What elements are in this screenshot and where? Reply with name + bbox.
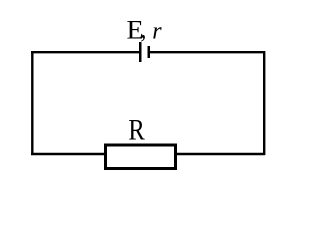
svg-text:R: R (128, 113, 145, 146)
wire bottom-left segment (31, 153, 105, 155)
wire bottom-right segment (176, 153, 265, 155)
battery E right plate (short) (148, 46, 151, 58)
resistor R box (106, 145, 176, 169)
svg-text:r: r (152, 19, 162, 45)
wire top-right segment (150, 51, 265, 53)
wire right side (263, 51, 265, 155)
wire top-left segment (31, 51, 140, 53)
wire left side (31, 51, 33, 155)
svg-text:,: , (140, 17, 146, 44)
battery E left plate (long) (139, 42, 142, 62)
